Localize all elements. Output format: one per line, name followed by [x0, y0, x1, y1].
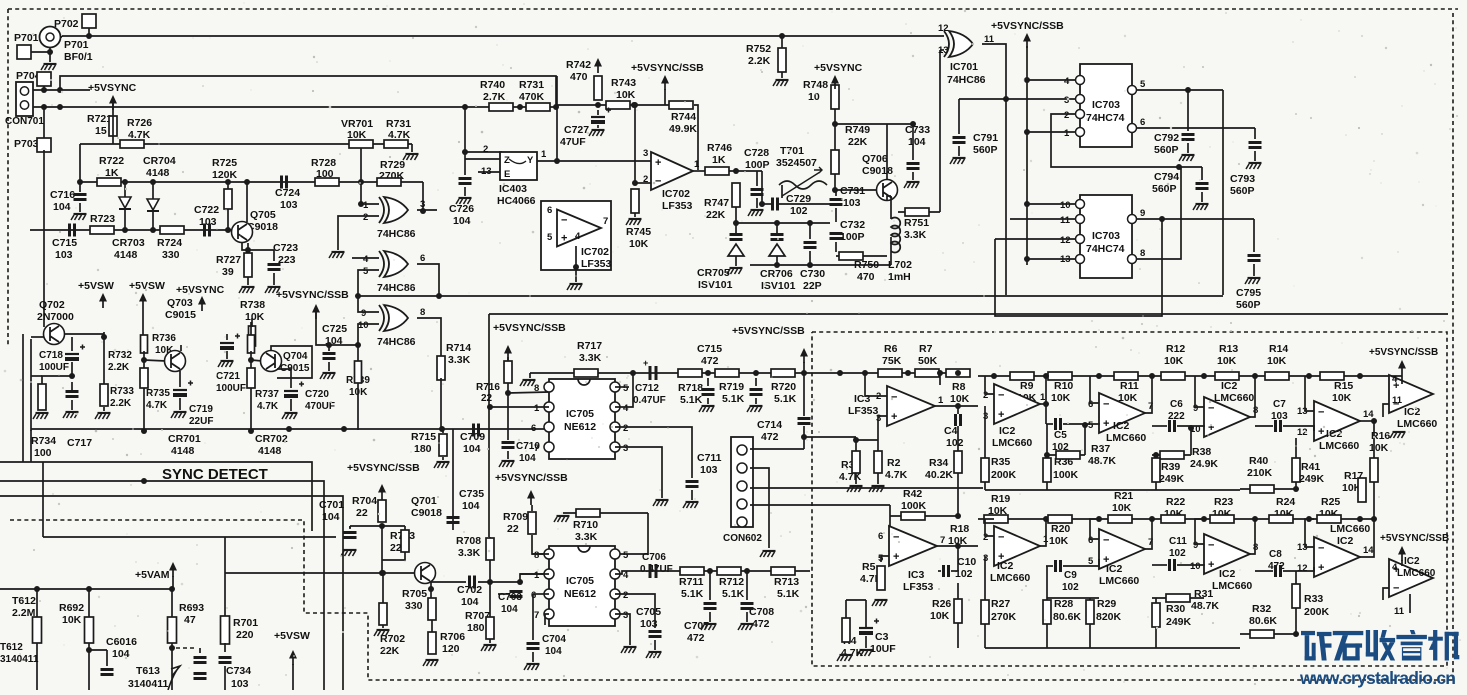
svg-text:220: 220 — [236, 629, 254, 641]
svg-text:14: 14 — [1363, 409, 1374, 420]
svg-text:50K: 50K — [918, 355, 938, 367]
svg-text:R713: R713 — [774, 576, 799, 588]
svg-text:+5VSYNC/SSB: +5VSYNC/SSB — [991, 20, 1064, 32]
svg-text:10K: 10K — [1369, 442, 1389, 454]
svg-text:−: − — [1318, 407, 1324, 419]
svg-text:C724: C724 — [275, 187, 300, 199]
svg-text:75K: 75K — [882, 355, 902, 367]
svg-text:+: + — [1208, 559, 1214, 571]
svg-text:+5VAM: +5VAM — [135, 569, 170, 581]
svg-text:C712: C712 — [635, 383, 659, 394]
svg-text:5: 5 — [1140, 79, 1146, 90]
svg-text:7: 7 — [534, 443, 539, 454]
svg-text:−: − — [561, 214, 567, 226]
svg-text:270K: 270K — [991, 611, 1017, 623]
svg-text:R749: R749 — [845, 124, 870, 136]
svg-text:3: 3 — [420, 199, 425, 210]
svg-text:−: − — [1318, 543, 1324, 555]
svg-text:NE612: NE612 — [564, 421, 596, 433]
svg-text:−: − — [998, 532, 1004, 544]
svg-text:R740: R740 — [480, 79, 505, 91]
svg-text:NE612: NE612 — [564, 588, 596, 600]
svg-text:104: 104 — [908, 136, 926, 148]
svg-text:C794: C794 — [1154, 171, 1179, 183]
svg-text:100P: 100P — [745, 159, 770, 171]
svg-text:www.crystalradio.cn: www.crystalradio.cn — [1299, 668, 1456, 688]
svg-text:IC2: IC2 — [999, 425, 1016, 437]
svg-text:5.1K: 5.1K — [722, 588, 745, 600]
svg-text:R712: R712 — [719, 576, 744, 588]
svg-text:4: 4 — [623, 403, 629, 414]
svg-text:C730: C730 — [800, 268, 825, 280]
svg-text:CR704: CR704 — [143, 155, 176, 167]
svg-text:C701: C701 — [319, 499, 344, 511]
svg-text:−: − — [1208, 403, 1214, 415]
svg-text:C714: C714 — [757, 419, 782, 431]
svg-text:C720: C720 — [305, 389, 329, 400]
svg-text:ISV101: ISV101 — [698, 279, 733, 291]
svg-text:2.2K: 2.2K — [748, 55, 771, 67]
svg-text:R745: R745 — [626, 226, 651, 238]
svg-text:40.2K: 40.2K — [925, 469, 953, 481]
svg-text:1: 1 — [938, 395, 944, 406]
svg-text:Q702: Q702 — [39, 299, 65, 311]
svg-text:3: 3 — [623, 610, 628, 621]
svg-text:R722: R722 — [99, 155, 124, 167]
svg-text:R6: R6 — [884, 343, 898, 355]
svg-text:10K: 10K — [930, 610, 950, 622]
svg-text:R752: R752 — [746, 43, 771, 55]
svg-text:LF353: LF353 — [848, 405, 879, 417]
svg-text:+5VSYNC: +5VSYNC — [176, 284, 225, 296]
svg-text:74HC86: 74HC86 — [377, 336, 416, 348]
svg-text:C715: C715 — [52, 237, 77, 249]
svg-text:R38: R38 — [1192, 446, 1211, 458]
svg-text:C734: C734 — [226, 665, 251, 677]
svg-text:74HC86: 74HC86 — [377, 228, 416, 240]
svg-text:249K: 249K — [1159, 473, 1185, 485]
svg-text:2: 2 — [483, 144, 488, 155]
svg-text:IC702: IC702 — [662, 188, 690, 200]
svg-text:+: + — [891, 411, 897, 423]
svg-text:9: 9 — [361, 308, 366, 319]
svg-text:LMC660: LMC660 — [990, 572, 1030, 584]
svg-text:10K: 10K — [948, 535, 968, 547]
svg-text:470: 470 — [857, 271, 875, 283]
svg-text:R18: R18 — [950, 523, 969, 535]
svg-text:10K: 10K — [1164, 355, 1184, 367]
svg-text:R12: R12 — [1166, 343, 1185, 355]
svg-text:+5VSW: +5VSW — [78, 280, 114, 292]
svg-text:HC4066: HC4066 — [497, 195, 536, 207]
svg-text:R19: R19 — [991, 493, 1010, 505]
svg-text:P701: P701 — [14, 32, 39, 44]
svg-text:Q701: Q701 — [411, 495, 437, 507]
svg-text:80.6K: 80.6K — [1249, 615, 1277, 627]
svg-text:LMC660: LMC660 — [1106, 432, 1146, 444]
svg-text:R28: R28 — [1054, 598, 1073, 610]
svg-text:6: 6 — [1140, 117, 1145, 128]
svg-text:3: 3 — [623, 443, 628, 454]
svg-text:R22: R22 — [1166, 496, 1185, 508]
svg-text:48.7K: 48.7K — [1191, 600, 1219, 612]
svg-text:R31: R31 — [1194, 588, 1213, 600]
svg-text:22UF: 22UF — [189, 416, 213, 427]
svg-text:C10: C10 — [957, 556, 976, 568]
svg-text:IC2: IC2 — [1337, 535, 1354, 547]
svg-text:10UF: 10UF — [870, 643, 896, 655]
svg-text:1: 1 — [534, 570, 540, 581]
svg-text:3: 3 — [643, 148, 648, 159]
svg-text:R11: R11 — [1120, 380, 1139, 392]
svg-text:C711: C711 — [697, 452, 722, 464]
svg-text:C703: C703 — [498, 592, 522, 603]
svg-text:R742: R742 — [566, 59, 591, 71]
svg-text:2.2K: 2.2K — [108, 362, 130, 373]
svg-text:5: 5 — [363, 266, 369, 277]
svg-text:C7: C7 — [1273, 399, 1286, 410]
svg-text:11: 11 — [1392, 395, 1403, 406]
svg-text:1mH: 1mH — [888, 271, 911, 283]
svg-text:IC2: IC2 — [1106, 563, 1123, 575]
svg-text:R748: R748 — [803, 79, 828, 91]
svg-text:5.1K: 5.1K — [680, 394, 703, 406]
svg-text:IC703: IC703 — [1092, 230, 1120, 242]
svg-text:3.3K: 3.3K — [904, 229, 927, 241]
svg-text:C9018: C9018 — [862, 165, 893, 177]
svg-text:R727: R727 — [216, 254, 241, 266]
svg-text:C717: C717 — [67, 437, 92, 449]
svg-text:4: 4 — [575, 231, 581, 242]
svg-text:C733: C733 — [905, 124, 930, 136]
svg-text:R29: R29 — [1097, 598, 1116, 610]
svg-text:R743: R743 — [611, 77, 636, 89]
svg-text:22K: 22K — [380, 645, 400, 657]
svg-text:22P: 22P — [803, 280, 822, 292]
svg-text:+5VSYNC/SSB: +5VSYNC/SSB — [495, 472, 568, 484]
svg-text:R719: R719 — [719, 381, 744, 393]
svg-text:2N7000: 2N7000 — [37, 311, 74, 323]
svg-text:+5VSYNC/SSB: +5VSYNC/SSB — [1369, 347, 1438, 358]
svg-text:103: 103 — [231, 678, 249, 690]
svg-text:C731: C731 — [840, 185, 865, 197]
svg-text:100K: 100K — [901, 500, 927, 512]
svg-text:C722: C722 — [194, 204, 219, 216]
svg-text:R733: R733 — [110, 386, 134, 397]
svg-text:4.7K: 4.7K — [885, 469, 908, 481]
svg-text:74HC74: 74HC74 — [1086, 112, 1125, 124]
svg-text:R751: R751 — [904, 217, 929, 229]
svg-text:R693: R693 — [179, 602, 204, 614]
svg-text:R746: R746 — [707, 142, 732, 154]
svg-text:+5VSW: +5VSW — [274, 630, 310, 642]
svg-text:R731: R731 — [519, 79, 544, 91]
svg-text:C5: C5 — [1054, 430, 1067, 441]
svg-text:74HC74: 74HC74 — [1086, 243, 1125, 255]
svg-text:4148: 4148 — [146, 167, 170, 179]
svg-text:472: 472 — [701, 355, 719, 367]
svg-text:R8: R8 — [952, 381, 966, 393]
svg-text:74HC86: 74HC86 — [377, 282, 416, 294]
svg-text:R20: R20 — [1051, 523, 1070, 535]
svg-text:8: 8 — [1140, 248, 1145, 259]
svg-text:7: 7 — [940, 535, 945, 546]
svg-text:330: 330 — [162, 249, 180, 261]
svg-text:5: 5 — [623, 383, 629, 394]
svg-text:12: 12 — [1297, 563, 1308, 574]
svg-text:CR706: CR706 — [760, 268, 793, 280]
svg-text:IC3: IC3 — [854, 393, 871, 405]
svg-text:10K: 10K — [245, 311, 265, 323]
svg-text:C791: C791 — [973, 132, 998, 144]
svg-text:R711: R711 — [679, 576, 704, 588]
svg-text:LMC660: LMC660 — [1330, 523, 1370, 535]
svg-text:−: − — [891, 392, 897, 404]
svg-text:T613: T613 — [136, 665, 160, 677]
svg-text:10: 10 — [358, 320, 369, 331]
svg-text:+: + — [1208, 422, 1214, 434]
svg-text:39: 39 — [222, 266, 234, 278]
svg-text:R21: R21 — [1114, 490, 1133, 502]
svg-text:48.7K: 48.7K — [1088, 455, 1116, 467]
svg-text:R702: R702 — [380, 633, 405, 645]
svg-text:R30: R30 — [1166, 603, 1185, 615]
svg-text:R701: R701 — [233, 617, 258, 629]
svg-text:P701: P701 — [64, 39, 89, 51]
svg-text:+5VSYNC: +5VSYNC — [88, 82, 137, 94]
svg-text:470: 470 — [570, 71, 588, 83]
svg-text:Q706: Q706 — [862, 153, 888, 165]
svg-text:6: 6 — [547, 205, 552, 216]
svg-text:2: 2 — [1064, 110, 1069, 121]
svg-text:4.7K: 4.7K — [257, 401, 279, 412]
svg-text:560P: 560P — [1152, 183, 1177, 195]
svg-text:R13: R13 — [1219, 343, 1238, 355]
svg-text:LMC660: LMC660 — [1319, 440, 1359, 452]
svg-text:223: 223 — [278, 254, 296, 266]
svg-text:820K: 820K — [1096, 611, 1122, 623]
svg-text:10: 10 — [1190, 561, 1201, 572]
svg-text:LMC660: LMC660 — [1397, 418, 1437, 430]
svg-text:R2: R2 — [887, 457, 901, 469]
svg-text:C9: C9 — [1064, 570, 1077, 581]
svg-text:200K: 200K — [991, 469, 1017, 481]
svg-text:+: + — [561, 232, 567, 244]
svg-text:LMC660: LMC660 — [1397, 568, 1436, 579]
svg-text:R708: R708 — [456, 535, 481, 547]
svg-text:R718: R718 — [678, 382, 703, 394]
svg-text:IC2: IC2 — [1404, 556, 1420, 567]
svg-text:R735: R735 — [146, 388, 170, 399]
svg-text:80.6K: 80.6K — [1053, 611, 1081, 623]
svg-text:CR705: CR705 — [697, 267, 730, 279]
svg-text:Z: Z — [504, 155, 510, 166]
svg-text:Q703: Q703 — [167, 297, 193, 309]
svg-text:9: 9 — [1140, 208, 1145, 219]
svg-text:R715: R715 — [411, 431, 436, 443]
svg-text:R709: R709 — [503, 511, 528, 523]
svg-text:C8: C8 — [1269, 549, 1282, 560]
svg-text:R27: R27 — [991, 598, 1010, 610]
svg-text:C9018: C9018 — [411, 507, 442, 519]
svg-text:R714: R714 — [446, 342, 471, 354]
svg-text:10: 10 — [1060, 200, 1071, 211]
svg-text:2: 2 — [623, 590, 628, 601]
svg-text:560P: 560P — [973, 144, 998, 156]
svg-text:7: 7 — [534, 610, 539, 621]
svg-text:249K: 249K — [1166, 616, 1192, 628]
svg-text:LF353: LF353 — [662, 200, 693, 212]
svg-text:R24: R24 — [1276, 496, 1295, 508]
svg-text:CR702: CR702 — [255, 433, 288, 445]
svg-text:200K: 200K — [1304, 606, 1330, 618]
svg-text:470K: 470K — [519, 91, 545, 103]
svg-text:IC2: IC2 — [997, 560, 1014, 572]
svg-text:R732: R732 — [108, 350, 132, 361]
svg-text:R34: R34 — [929, 457, 948, 469]
svg-text:1: 1 — [541, 149, 547, 160]
svg-text:R26: R26 — [932, 598, 951, 610]
svg-text:11: 11 — [1060, 215, 1071, 226]
svg-text:C705: C705 — [636, 606, 661, 618]
svg-text:1: 1 — [694, 159, 700, 170]
svg-text:3: 3 — [1064, 95, 1069, 106]
svg-text:C732: C732 — [840, 219, 865, 231]
svg-text:C716: C716 — [50, 189, 75, 201]
svg-text:ISV101: ISV101 — [761, 280, 796, 292]
svg-text:E: E — [504, 169, 510, 180]
svg-text:+: + — [998, 409, 1004, 421]
svg-text:472: 472 — [761, 431, 779, 443]
svg-text:R734: R734 — [31, 435, 56, 447]
svg-text:330: 330 — [405, 600, 423, 612]
svg-text:5.1K: 5.1K — [681, 588, 704, 600]
svg-text:R33: R33 — [1304, 593, 1323, 605]
svg-text:C718: C718 — [39, 350, 63, 361]
svg-text:102: 102 — [790, 205, 808, 217]
svg-text:1: 1 — [363, 200, 369, 211]
svg-text:LF353: LF353 — [903, 581, 934, 593]
svg-text:104: 104 — [519, 453, 536, 464]
svg-text:C728: C728 — [744, 147, 769, 159]
svg-text:8: 8 — [534, 550, 539, 561]
svg-text:R747: R747 — [704, 197, 729, 209]
svg-text:12: 12 — [938, 23, 949, 34]
svg-text:BF0/1: BF0/1 — [64, 51, 93, 63]
svg-text:10K: 10K — [950, 393, 970, 405]
svg-text:R41: R41 — [1301, 461, 1320, 473]
svg-text:C723: C723 — [273, 242, 298, 254]
svg-text:−: − — [1208, 540, 1214, 552]
svg-text:3140411: 3140411 — [0, 654, 39, 665]
svg-text:LMC660: LMC660 — [992, 437, 1032, 449]
svg-text:10K: 10K — [629, 238, 649, 250]
svg-text:7: 7 — [603, 216, 608, 227]
svg-text:C9015: C9015 — [165, 309, 196, 321]
svg-text:3.3K: 3.3K — [575, 531, 598, 543]
svg-text:+: + — [1103, 418, 1109, 430]
svg-text:1K: 1K — [712, 154, 726, 166]
svg-text:102: 102 — [1169, 548, 1186, 559]
svg-text:R39: R39 — [1161, 461, 1180, 473]
svg-text:R37: R37 — [1091, 443, 1110, 455]
svg-text:R9: R9 — [1020, 380, 1034, 392]
svg-text:T612: T612 — [0, 642, 23, 653]
svg-text:104: 104 — [463, 443, 481, 455]
svg-text:104: 104 — [545, 646, 562, 657]
svg-text:472: 472 — [752, 618, 770, 630]
svg-text:+5VSYNC/SSB: +5VSYNC/SSB — [276, 289, 349, 301]
svg-text:4: 4 — [1064, 76, 1070, 87]
svg-text:C4: C4 — [944, 425, 958, 437]
svg-text:Q704: Q704 — [283, 351, 308, 362]
svg-text:R726: R726 — [127, 117, 152, 129]
svg-text:4148: 4148 — [114, 249, 138, 261]
svg-text:LMC660: LMC660 — [1214, 392, 1254, 404]
svg-text:+: + — [1318, 562, 1324, 574]
svg-text:−: − — [1103, 399, 1109, 411]
svg-text:10K: 10K — [62, 614, 82, 626]
svg-text:R725: R725 — [212, 157, 237, 169]
svg-text:8: 8 — [534, 383, 539, 394]
svg-text:LMC660: LMC660 — [1099, 575, 1139, 587]
svg-text:103: 103 — [280, 199, 298, 211]
svg-text:100P: 100P — [840, 231, 865, 243]
svg-text:+5VSYNC/SSB: +5VSYNC/SSB — [631, 62, 704, 74]
svg-text:IC2: IC2 — [1219, 568, 1236, 580]
svg-text:−: − — [998, 390, 1004, 402]
svg-text:IC705: IC705 — [566, 408, 594, 420]
svg-text:100UF: 100UF — [39, 362, 69, 373]
svg-text:103: 103 — [199, 216, 217, 228]
svg-text:4148: 4148 — [258, 445, 282, 457]
svg-text:5.1K: 5.1K — [777, 588, 800, 600]
svg-text:180: 180 — [414, 443, 432, 455]
svg-text:8: 8 — [420, 307, 425, 318]
svg-text:LMC660: LMC660 — [1212, 580, 1252, 592]
svg-text:R35: R35 — [991, 456, 1010, 468]
svg-text:C719: C719 — [189, 404, 213, 415]
svg-text:10: 10 — [808, 91, 820, 103]
svg-text:R736: R736 — [152, 333, 176, 344]
svg-text:180: 180 — [467, 622, 485, 634]
svg-text:IC701: IC701 — [950, 61, 978, 73]
svg-text:2: 2 — [623, 423, 628, 434]
svg-text:C704: C704 — [542, 634, 566, 645]
svg-text:104: 104 — [462, 500, 480, 512]
svg-text:210K: 210K — [1247, 467, 1273, 479]
svg-text:4.7K: 4.7K — [146, 400, 168, 411]
svg-text:Q705: Q705 — [250, 209, 276, 221]
svg-text:IC2: IC2 — [1221, 380, 1238, 392]
svg-text:3140411: 3140411 — [128, 678, 168, 690]
svg-text:1: 1 — [534, 403, 540, 414]
svg-text:C715: C715 — [697, 343, 722, 355]
svg-text:C792: C792 — [1154, 132, 1179, 144]
svg-text:C721: C721 — [216, 371, 240, 382]
svg-text:T701: T701 — [780, 145, 804, 157]
svg-text:R738: R738 — [240, 299, 265, 311]
svg-text:Y: Y — [527, 155, 534, 166]
svg-text:C6016: C6016 — [106, 636, 137, 648]
svg-text:472: 472 — [687, 632, 705, 644]
svg-text:6: 6 — [531, 423, 536, 434]
svg-text:R705: R705 — [402, 588, 427, 600]
svg-text:R710: R710 — [573, 519, 598, 531]
svg-text:10K: 10K — [1049, 535, 1069, 547]
svg-text:102: 102 — [946, 437, 964, 449]
svg-text:R717: R717 — [577, 340, 602, 352]
